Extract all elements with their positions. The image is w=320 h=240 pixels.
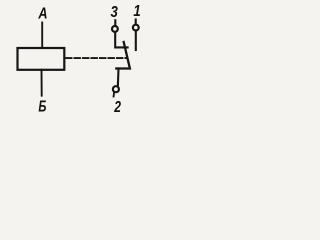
armature (movable contact)	[116, 42, 130, 69]
svg-text:Б: Б	[38, 98, 46, 115]
wire terminal A to coil top	[41, 23, 43, 49]
terminal 2 circle	[113, 86, 119, 92]
svg-text:2: 2	[113, 97, 121, 115]
fixed contact wire from terminal 1	[135, 31, 137, 50]
fixed contact from terminal 3 (wire down and bar right)	[115, 32, 127, 47]
dashed mechanical link coil to armature	[66, 57, 127, 59]
terminal 3 pin stub	[114, 20, 116, 25]
terminal 2 pin stub	[113, 93, 115, 97]
background	[0, 0, 160, 120]
wire armature to terminal 2	[117, 69, 120, 86]
svg-text:1: 1	[133, 3, 140, 20]
svg-text:3: 3	[111, 4, 118, 21]
terminal 1 circle	[133, 25, 139, 31]
terminal 3 circle	[112, 26, 118, 32]
relay coil K1 (rectangle)	[18, 48, 65, 70]
wire coil bottom to terminal B	[41, 70, 43, 96]
svg-text:А: А	[38, 5, 48, 22]
terminal 1 pin stub	[135, 20, 137, 25]
